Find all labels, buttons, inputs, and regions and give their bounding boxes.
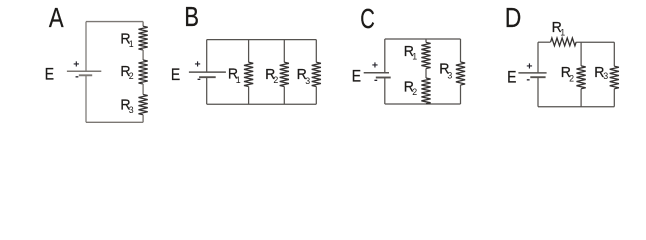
wire top-right of D <box>576 41 614 43</box>
wire right edge top (D) <box>613 42 615 66</box>
resistor R2 (C) <box>421 78 430 104</box>
wire right edge top (C) <box>460 39 462 62</box>
svg-text:+: + <box>372 59 378 71</box>
svg-text:3: 3 <box>129 105 134 115</box>
wire battery E (circuit A) top lead <box>85 22 87 72</box>
resistor R2 (B) <box>280 62 289 86</box>
resistor R1 (A) <box>139 26 148 50</box>
wire right edge bottom (C) <box>460 85 462 104</box>
wire battery E (circuit C) bottom lead <box>384 78 386 105</box>
svg-text:B: B <box>184 2 199 33</box>
wire battery E (circuit A) bottom lead <box>85 75 87 122</box>
svg-text:+: + <box>526 60 532 72</box>
wire battery E (circuit D) bottom lead <box>537 77 539 107</box>
wire right edge seg1 (A) <box>142 22 144 27</box>
battery E (circuit D) long plate (+) <box>518 72 546 74</box>
wire bottom of D <box>538 106 614 108</box>
svg-text:+: + <box>195 59 201 71</box>
wire battery E (circuit B) top lead <box>206 40 208 73</box>
battery E (circuit B) long plate (+) <box>189 71 226 73</box>
battery E (circuit A) long plate (+) <box>67 70 101 72</box>
svg-text:A: A <box>49 3 64 34</box>
wire top of B <box>207 39 317 41</box>
svg-text:E: E <box>45 66 54 84</box>
wire battery E (circuit D) top lead <box>537 42 539 73</box>
wire right edge top (B) <box>315 40 317 63</box>
svg-text:-: - <box>75 71 79 83</box>
svg-text:-: - <box>197 73 201 85</box>
svg-text:3: 3 <box>603 71 608 81</box>
battery E (circuit C) short plate (-) <box>376 77 391 79</box>
battery E (circuit B) short plate (-) <box>199 76 216 78</box>
resistor R3 (B) <box>312 62 321 86</box>
wire bottom of C <box>385 103 461 105</box>
wire right edge bottom (D) <box>613 89 615 107</box>
wire top of C <box>385 38 461 40</box>
wire bottom of B <box>207 103 317 105</box>
wire branch1 top (B) <box>248 40 250 63</box>
resistor R1 (D, horizontal) <box>551 38 577 46</box>
svg-text:2: 2 <box>412 87 417 97</box>
wire branch2 top (B) <box>283 40 285 63</box>
wire between R1 R2 (A) <box>142 50 144 60</box>
battery E (circuit A) short plate (-) <box>79 74 92 76</box>
resistor R2 (A) <box>139 60 148 84</box>
svg-text:2: 2 <box>129 71 134 81</box>
svg-text:1: 1 <box>129 39 134 49</box>
wire bottom of A <box>86 121 143 123</box>
resistor R3 (D) <box>610 66 619 89</box>
wire branch R2 bottom (D) <box>580 89 582 107</box>
resistor R2 (D) <box>577 66 586 89</box>
svg-text:E: E <box>507 69 516 87</box>
wire right edge bottom seg (A) <box>142 115 144 123</box>
resistor R1 (B) <box>244 62 253 86</box>
svg-text:E: E <box>171 66 180 84</box>
svg-text:+: + <box>73 59 79 71</box>
svg-text:2: 2 <box>569 73 574 83</box>
battery E (circuit C) long plate (+) <box>364 72 389 74</box>
svg-text:-: - <box>374 74 378 86</box>
wire right edge bottom (B) <box>315 87 317 105</box>
resistor R3 (A) <box>139 95 148 115</box>
svg-text:1: 1 <box>560 27 565 37</box>
wire top-left of D <box>538 41 551 43</box>
wire battery E (circuit B) bottom lead <box>206 77 208 104</box>
svg-text:1: 1 <box>236 75 241 85</box>
svg-text:2: 2 <box>273 75 278 85</box>
wire branch1 bottom (B) <box>248 87 250 105</box>
resistor R1 (C) <box>421 42 430 68</box>
wire top of A <box>86 21 143 23</box>
wire battery E (circuit C) top lead <box>384 39 386 73</box>
svg-text:E: E <box>352 68 361 86</box>
wire between R1 R2 (C) <box>425 69 427 79</box>
battery E (circuit D) short plate (-) <box>530 76 545 78</box>
svg-text:C: C <box>360 4 375 35</box>
resistor R3 (C) <box>456 62 465 85</box>
wire branch2 bottom (B) <box>283 87 285 105</box>
wire mid branch top stub (C) <box>425 39 427 42</box>
svg-text:3: 3 <box>447 70 452 80</box>
svg-text:3: 3 <box>305 76 310 86</box>
svg-text:-: - <box>526 74 530 86</box>
svg-text:D: D <box>505 3 522 33</box>
wire between R2 R3 (A) <box>142 84 144 95</box>
svg-text:1: 1 <box>412 51 417 61</box>
wire branch R2 top (D) <box>580 42 582 66</box>
